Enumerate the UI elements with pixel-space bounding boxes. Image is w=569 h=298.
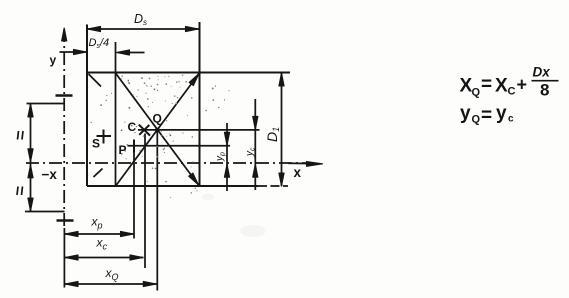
arrowhead down at bottom terminus — [28, 198, 33, 211]
y-axis solid extension for bottom dimensions — [63, 228, 65, 288]
ditto mark lower — [17, 187, 18, 196]
C extension line down to xc dimension — [144, 134, 146, 269]
svg-text:Ds: Ds — [134, 12, 147, 27]
svg-text:−x: −x — [42, 167, 58, 182]
Ds/4 vertical division line — [115, 42, 117, 186]
svg-text:c: c — [508, 114, 514, 125]
svg-text:y: y — [460, 103, 471, 124]
x-axis arrow tail — [288, 162, 316, 164]
yp dimension line — [226, 123, 228, 191]
stipple texture inside square — [91, 74, 230, 197]
arrowhead up from below x-axis — [28, 165, 33, 178]
svg-text:Q: Q — [472, 114, 481, 126]
left equal-distance dimension vertical line — [30, 104, 32, 211]
svg-text:=: = — [481, 105, 492, 126]
D1 dimension line — [281, 73, 283, 186]
svg-text:y: y — [50, 53, 57, 67]
xp dimension line — [65, 233, 135, 235]
x-axis dash-dot line — [26, 162, 307, 164]
svg-text:xQ: xQ — [105, 266, 119, 282]
svg-text:S: S — [92, 137, 100, 151]
svg-text:X: X — [495, 76, 508, 97]
svg-text:yc: yc — [245, 147, 257, 157]
P extension line down to xp dimension — [133, 146, 135, 239]
svg-text:Q: Q — [472, 87, 481, 99]
chamfer stroke at bottom-left corner — [94, 169, 103, 178]
square right edge with extension up to Ds dimension — [199, 22, 201, 186]
svg-text:y: y — [496, 103, 507, 124]
top terminus line — [27, 103, 65, 105]
Ds/4 dimension arrows — [60, 51, 87, 53]
xc dimension line — [65, 257, 144, 259]
svg-text:C: C — [508, 86, 516, 98]
square bottom edge extended right to D1 dimension — [87, 185, 258, 187]
svg-text:P: P — [119, 143, 127, 157]
arrowhead on diagonal at top-right corner — [189, 74, 199, 86]
svg-text:C: C — [128, 120, 137, 134]
svg-text:+: + — [517, 75, 528, 95]
x-axis arrowhead — [307, 162, 323, 167]
diagonal from Ds/4 top to bottom-right corner — [116, 73, 199, 185]
point C x-marker — [139, 125, 150, 136]
svg-text:xp: xp — [91, 215, 103, 231]
tick on y-axis lower — [57, 219, 74, 222]
chamfer stroke at top-left corner — [89, 74, 102, 87]
svg-text:=: = — [481, 74, 492, 95]
svg-text:x: x — [294, 165, 302, 180]
svg-text:Ds/4: Ds/4 — [89, 37, 110, 50]
bottom terminus line — [25, 211, 65, 213]
y-axis dash-dot line — [63, 29, 65, 228]
arrowhead down to x-axis — [28, 149, 33, 162]
svg-text:8: 8 — [540, 81, 549, 100]
svg-text:Dx: Dx — [533, 65, 551, 80]
svg-text:Q: Q — [153, 112, 162, 126]
y-axis arrowhead — [62, 28, 67, 41]
square top edge extended right to D1 dimension — [87, 72, 290, 74]
svg-text:yp: yp — [215, 152, 227, 162]
tick on y-axis upper — [56, 94, 73, 97]
square left edge with extension up to Ds dimension — [86, 25, 88, 187]
Ds dimension line — [87, 28, 199, 30]
formula line 1: XQ = XC + Dx/8 — [460, 65, 559, 127]
arrowhead on diagonal at bottom-right corner — [189, 173, 199, 185]
arrowhead up at top terminus — [28, 104, 33, 117]
diagonal from Ds/4 bottom to top-right corner — [116, 74, 199, 186]
P level horizontal line to yp dimension — [128, 145, 231, 147]
faint scan smudges — [240, 225, 266, 237]
point Q dot — [155, 128, 160, 133]
C/Q level horizontal line to yc dimension — [138, 129, 260, 131]
point P cross marker vertical arm — [133, 140, 135, 153]
svg-text:D1: D1 — [264, 127, 281, 142]
Q extension line down to xQ dimension — [156, 130, 158, 291]
yc dimension line — [254, 99, 256, 190]
point S cross marker — [97, 135, 112, 137]
ditto mark upper — [18, 131, 19, 140]
svg-text:xc: xc — [96, 236, 108, 252]
xQ dimension line — [65, 283, 157, 285]
